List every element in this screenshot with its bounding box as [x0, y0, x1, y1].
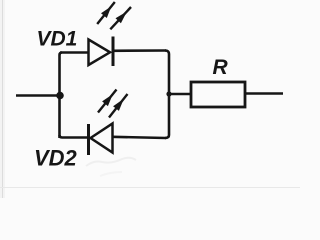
- LED VD2 light arrow 2: [109, 94, 128, 118]
- faint page bleed-through marks: [86, 158, 136, 166]
- LED VD2 triangle (points left): [91, 124, 113, 153]
- paper background: [0, 0, 300, 198]
- LED VD1 triangle (anode): [89, 40, 111, 66]
- LED VD1 light arrow 2: [110, 7, 131, 29]
- wire top right segment: [112, 49, 166, 52]
- node B junction on right rail: [166, 91, 171, 96]
- svg-text:VD2: VD2: [34, 146, 78, 171]
- wire right vertical: [165, 51, 169, 139]
- wire left vertical: [60, 53, 63, 139]
- LED VD2 light arrow 1: [98, 90, 117, 113]
- wire node B to resistor: [169, 93, 191, 96]
- svg-text:VD1: VD1: [37, 28, 78, 51]
- LED VD1 light arrow 1: [97, 2, 115, 24]
- LED VD2 cathode bar: [87, 124, 90, 155]
- wire bottom right segment: [112, 137, 166, 138]
- resistor R body: [191, 82, 245, 107]
- LED VD1 cathode bar: [112, 37, 115, 67]
- wire top left segment: [60, 51, 89, 54]
- wire resistor to right: [246, 92, 283, 95]
- node A junction dot: [56, 92, 64, 100]
- wire input left: [16, 94, 59, 97]
- wire bottom left segment: [60, 135, 90, 138]
- svg-text:R: R: [213, 56, 229, 79]
